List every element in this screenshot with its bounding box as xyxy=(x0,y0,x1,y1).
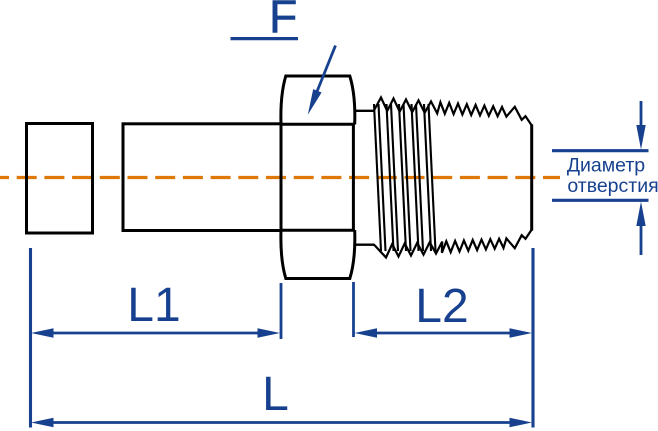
F leader arrow xyxy=(316,46,336,95)
hex nut bottom cap xyxy=(281,230,355,279)
thread right end face xyxy=(530,124,533,230)
hole diameter down arrow xyxy=(640,101,643,130)
svg-text:отверстия: отверстия xyxy=(567,175,658,197)
svg-text:L: L xyxy=(262,368,289,421)
thread shoulder top line xyxy=(354,110,375,112)
hole diameter bottom line xyxy=(552,199,649,202)
svg-text:Диаметр: Диаметр xyxy=(567,155,645,177)
svg-text:L1: L1 xyxy=(127,279,180,332)
hex side faces xyxy=(280,125,283,231)
hex nut top cap xyxy=(281,76,355,125)
hole diameter top line xyxy=(552,149,649,152)
thread shoulder bottom line xyxy=(354,243,375,245)
dimension line L2 xyxy=(375,332,511,335)
dimension line L1 xyxy=(52,332,259,335)
extension line hex right xyxy=(352,282,355,337)
left sleeve rectangle xyxy=(27,124,93,234)
thread crest zigzag top xyxy=(374,98,532,126)
hole diameter up arrow xyxy=(640,226,643,255)
thread crest zigzag bottom xyxy=(374,230,532,258)
dimension line L xyxy=(52,421,511,424)
hex upper facet line xyxy=(281,123,355,126)
F underline xyxy=(231,37,299,40)
hex lower facet line xyxy=(281,229,355,232)
svg-text:L2: L2 xyxy=(415,280,468,333)
extension line hex left xyxy=(280,283,283,339)
extension line right xyxy=(531,248,534,428)
svg-text:F: F xyxy=(269,0,297,43)
extension line left xyxy=(29,248,32,428)
body shaft rectangle xyxy=(123,124,281,231)
thread flank lines xyxy=(374,104,436,251)
centerline (orange dashed axis) xyxy=(0,176,560,179)
